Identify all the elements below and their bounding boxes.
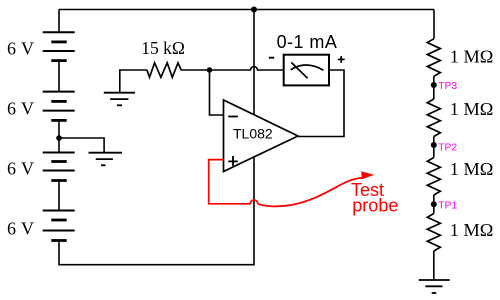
svg-text:6 V: 6 V xyxy=(7,99,34,119)
svg-text:6 V: 6 V xyxy=(7,158,34,178)
wire R3 to R4 xyxy=(433,195,435,214)
red test probe arrowhead xyxy=(361,171,374,179)
svg-text:TP2: TP2 xyxy=(438,142,457,153)
svg-text:1 MΩ: 1 MΩ xyxy=(450,99,494,119)
meter needle xyxy=(291,62,307,78)
resistor R2 1 MOhm xyxy=(427,99,440,137)
svg-text:6 V: 6 V xyxy=(7,39,34,59)
svg-text:TP1: TP1 xyxy=(438,201,457,212)
wire B2 to B3 xyxy=(58,120,60,152)
node TP1 xyxy=(431,201,437,207)
meter M1 box xyxy=(284,55,329,86)
ground G1 lead wire xyxy=(120,70,147,93)
wire node A to op-amp inverting input xyxy=(210,70,224,115)
wire V+ power xyxy=(253,10,255,115)
battery B2 xyxy=(43,92,75,121)
svg-text:0-1 mA: 0-1 mA xyxy=(277,32,338,52)
svg-text:1 MΩ: 1 MΩ xyxy=(450,220,494,240)
svg-text:TL082: TL082 xyxy=(233,126,273,142)
red probe wire from op-amp + input with hop over V- line xyxy=(209,160,258,204)
wire midpoint to ground xyxy=(59,138,104,153)
wire B3 to B4 xyxy=(58,181,60,211)
op-amp noninverting pin mark xyxy=(228,156,238,166)
battery B4 xyxy=(43,211,75,241)
node TP3 xyxy=(431,82,437,88)
wire B1 to B2 xyxy=(58,61,60,92)
wire battery top lead xyxy=(58,10,60,33)
svg-text:6 V: 6 V xyxy=(7,219,34,239)
svg-text:1 MΩ: 1 MΩ xyxy=(450,46,494,66)
wire resistor chain top lead xyxy=(433,10,435,39)
wire R2 to R3 xyxy=(433,137,435,158)
resistor R3 1 MOhm xyxy=(427,158,440,196)
node A (inverting input node) xyxy=(207,67,213,73)
wire R4 to ground xyxy=(433,251,435,280)
op-amp U1 TL082 triangle xyxy=(224,100,299,172)
svg-text:probe: probe xyxy=(352,195,398,215)
label meter minus xyxy=(269,57,274,59)
meter scale arc xyxy=(291,65,324,70)
node battery midpoint xyxy=(56,135,62,141)
op-amp inverting pin mark xyxy=(228,116,238,118)
resistor R5 15 kOhm xyxy=(147,63,181,78)
wire 15k to node A with hop over V+ line xyxy=(181,67,284,71)
resistor R1 1 MOhm xyxy=(427,39,440,77)
node top rail junction xyxy=(251,7,257,13)
red test probe cable curve xyxy=(258,178,363,207)
wire R1 to R2 xyxy=(433,76,435,99)
battery B1 xyxy=(43,32,75,60)
wire op-amp output loop to meter plus xyxy=(298,70,344,137)
label meter plus xyxy=(338,56,345,63)
ground G1 (15k resistor) xyxy=(104,93,135,106)
wire bottom rail xyxy=(59,157,254,265)
battery B3 xyxy=(43,153,75,181)
resistor R4 1 MOhm xyxy=(427,214,440,252)
ground G3 (resistor chain) xyxy=(419,280,450,293)
svg-text:15 kΩ: 15 kΩ xyxy=(141,38,185,58)
ground G2 (battery midpoint) xyxy=(89,153,123,166)
node TP2 xyxy=(431,142,437,148)
svg-text:TP3: TP3 xyxy=(438,81,457,92)
svg-text:1 MΩ: 1 MΩ xyxy=(450,159,494,179)
wire top rail xyxy=(59,9,434,11)
